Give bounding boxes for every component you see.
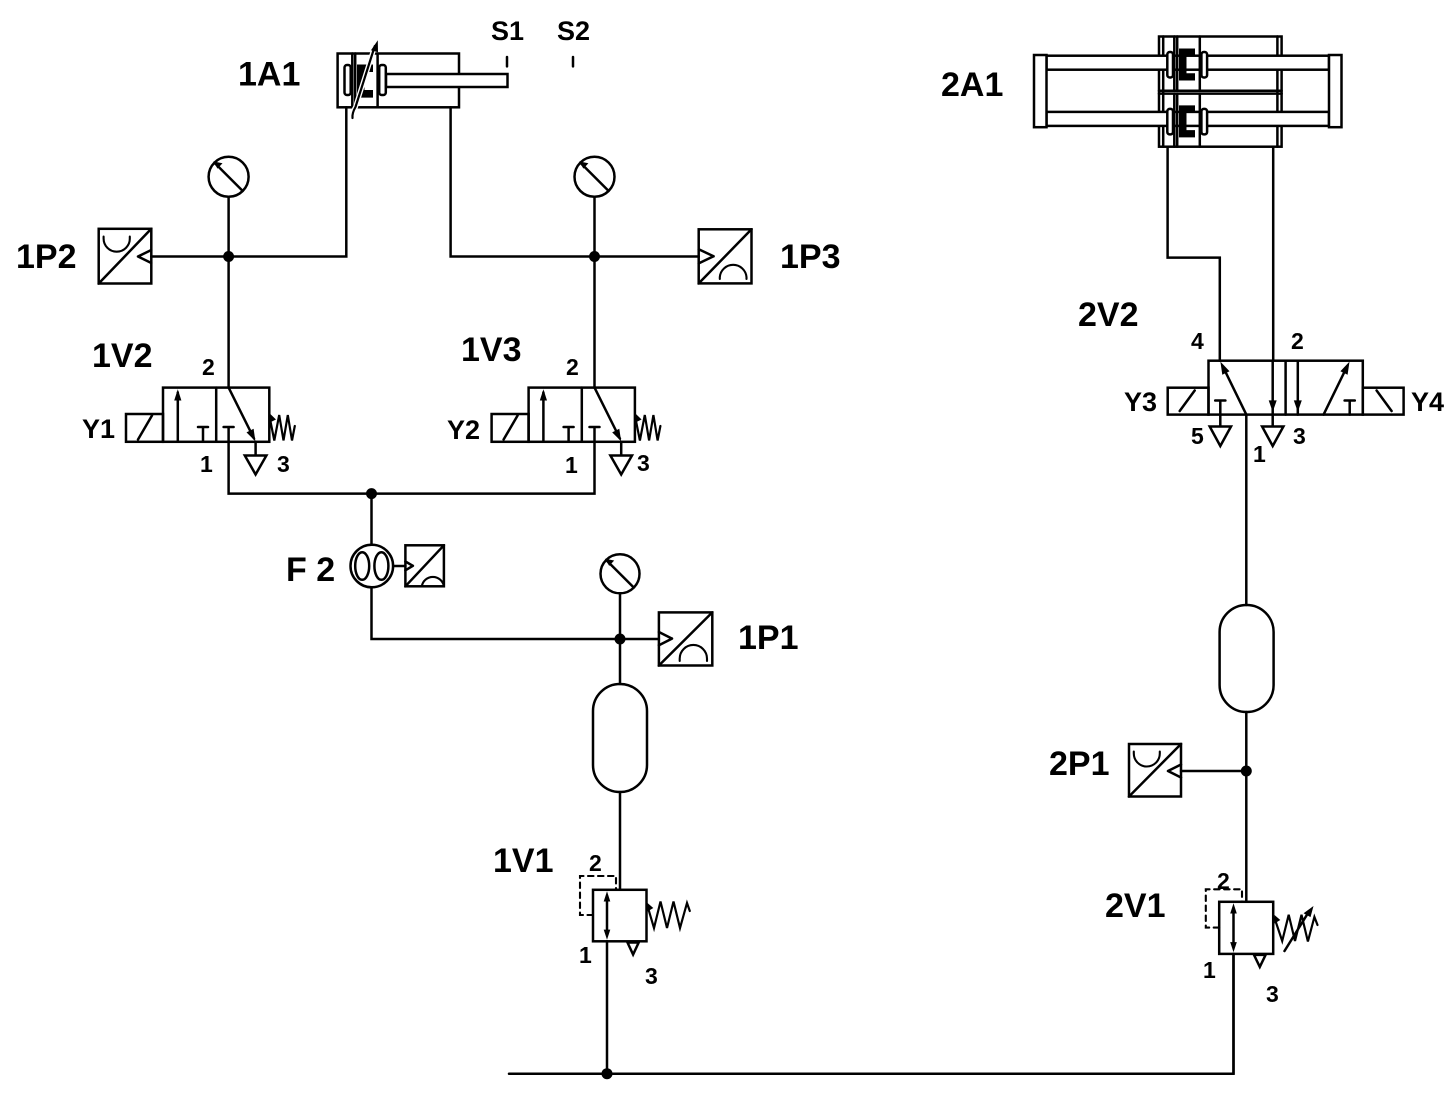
exhaust port 3 of 1V2 [245, 442, 267, 475]
wire cylinder-1A1 left port down [229, 107, 347, 256]
wire manifold 1V2-1V3 port 1 rail [229, 442, 595, 494]
air reservoir left [593, 684, 647, 792]
wire node-B to valve 1V3 port 2 [593, 257, 596, 388]
pressure gauge left [209, 157, 249, 257]
svg-text:S1: S1 [491, 16, 524, 46]
exhaust port 3 of 2V2 [1262, 415, 1283, 446]
svg-text:2V2: 2V2 [1078, 296, 1139, 334]
spring 1V1 [648, 902, 690, 929]
wire node-D to reservoir [619, 639, 622, 684]
spring 1V2 [270, 415, 295, 441]
wire node to regulator 2V1 [1245, 771, 1248, 902]
pressure sensor 1P2 [99, 229, 229, 284]
svg-text:2P1: 2P1 [1049, 745, 1110, 783]
svg-text:Y1: Y1 [82, 414, 115, 444]
svg-text:1: 1 [579, 942, 592, 968]
solenoid Y2 [492, 414, 529, 442]
wire reservoir to regulator 1V1 [619, 792, 622, 890]
wire node-A to valve 1V2 port 2 [227, 257, 230, 388]
svg-text:Y3: Y3 [1124, 387, 1157, 417]
svg-text:1P1: 1P1 [738, 619, 799, 657]
node manifold-C [366, 488, 377, 499]
wire cylinder-1A1 right port down [451, 107, 595, 256]
svg-text:1P2: 1P2 [16, 238, 77, 276]
wire cylinder-2A1 right port to valve 2V2 port 2 [1272, 147, 1275, 361]
svg-text:2: 2 [1291, 328, 1304, 354]
pressure sensor 2P1 [1129, 744, 1246, 797]
solenoid Y1 [126, 414, 163, 442]
svg-text:2: 2 [202, 354, 215, 380]
wire cylinder-2A1 left port to valve 2V2 port 4 [1168, 147, 1220, 361]
node supply-rail [602, 1068, 613, 1079]
svg-text:3: 3 [637, 450, 650, 476]
valve 2V2 (5/2 way impulse valve, solenoids Y3 and Y4) [1209, 361, 1363, 415]
svg-text:2A1: 2A1 [941, 66, 1003, 104]
svg-text:4: 4 [1191, 328, 1204, 354]
node left-manifold-A [223, 251, 234, 262]
svg-text:1V1: 1V1 [493, 842, 554, 880]
svg-text:2: 2 [566, 354, 579, 380]
solenoid Y3 [1168, 388, 1209, 415]
svg-text:2: 2 [1217, 868, 1230, 894]
svg-text:1P3: 1P3 [780, 238, 841, 276]
svg-text:Y4: Y4 [1411, 387, 1444, 417]
valve 1V2 (3/2 way, solenoid Y1, spring return) [163, 388, 269, 442]
cylinder 2A1 (twin rod with magnetic pistons) [1034, 37, 1342, 147]
pressure regulator 1V1 [580, 876, 647, 941]
svg-text:Y2: Y2 [447, 415, 480, 445]
flow sensor box of F2 [393, 545, 444, 586]
exhaust port 3 of 1V1 [628, 943, 639, 955]
svg-text:S2: S2 [557, 16, 590, 46]
svg-text:1: 1 [1253, 441, 1266, 467]
pressure gauge right [575, 157, 615, 257]
svg-text:2V1: 2V1 [1105, 887, 1166, 925]
svg-text:1: 1 [1203, 957, 1216, 983]
wire 2V2 port 1 down to reservoir [1245, 415, 1248, 605]
wire reservoir right down [1245, 712, 1248, 771]
node manifold-D [615, 634, 626, 645]
pressure sensor 1P1 [620, 612, 712, 665]
sensor tick S1 [506, 57, 509, 66]
wire 1V1 port 1 down to supply rail [606, 941, 609, 1073]
spring 1V3 [635, 415, 660, 441]
svg-text:3: 3 [1266, 981, 1279, 1007]
wire F2 down and right to node-D [372, 587, 621, 639]
pressure gauge bottom [601, 554, 640, 639]
node right-manifold [1241, 766, 1252, 777]
svg-text:3: 3 [1293, 423, 1306, 449]
svg-text:1V2: 1V2 [92, 337, 153, 375]
node left-manifold-B [589, 251, 600, 262]
wire 2V1 port 1 down [1232, 954, 1235, 1074]
svg-text:5: 5 [1191, 423, 1204, 449]
svg-text:1A1: 1A1 [238, 56, 300, 94]
svg-text:1: 1 [200, 451, 213, 477]
exhaust port 3 of 1V3 [610, 442, 632, 475]
svg-text:F 2: F 2 [286, 551, 335, 589]
svg-text:3: 3 [645, 963, 658, 989]
svg-text:3: 3 [277, 451, 290, 477]
svg-text:1V3: 1V3 [461, 331, 522, 369]
pressure sensor 1P3 [595, 229, 752, 283]
wire supply rail [509, 954, 1234, 1074]
exhaust port 5 of 2V2 [1210, 415, 1231, 446]
wire node-C down to flow meter F2 [370, 494, 373, 545]
flow meter F2 [351, 545, 394, 588]
svg-text:1: 1 [565, 452, 578, 478]
solenoid Y4 [1363, 388, 1404, 415]
pressure regulator 2V1 [1206, 889, 1273, 954]
exhaust port 3 of 2V1 [1254, 955, 1266, 967]
sensor tick S2 [572, 57, 575, 66]
air reservoir right [1220, 605, 1274, 712]
valve 1V3 (3/2 way, solenoid Y2, spring return) [529, 388, 635, 442]
svg-text:2: 2 [589, 850, 602, 876]
cylinder 1A1 [338, 40, 508, 118]
spring 2V1 (adjustable, with arrow) [1275, 906, 1318, 951]
